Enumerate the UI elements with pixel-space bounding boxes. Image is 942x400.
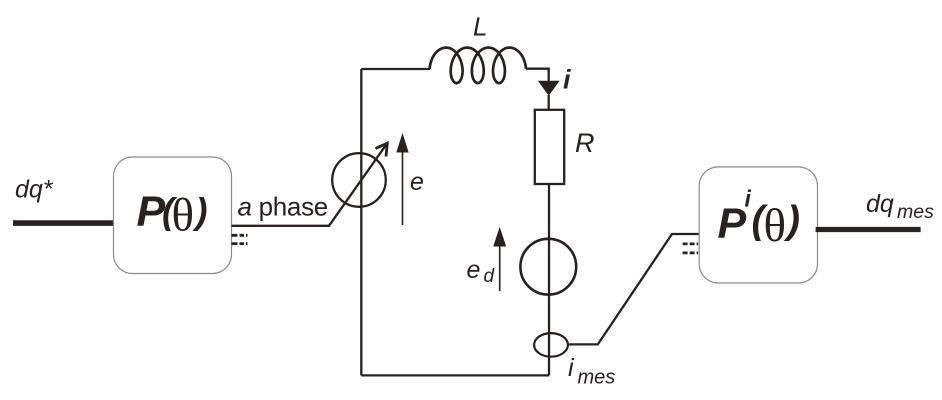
wire resistor to ed source and through to bottom — [548, 184, 550, 375]
wire sensor to P^i block — [568, 234, 699, 344]
wire bottom of loop — [361, 374, 549, 376]
svg-text:e: e — [467, 256, 481, 284]
svg-text:i: i — [568, 354, 575, 382]
wire dq* input (thick) — [13, 220, 114, 226]
svg-text:e: e — [410, 168, 424, 196]
wire dq_mes output (thick) — [816, 227, 921, 232]
svg-text:L: L — [473, 12, 487, 42]
arrow head of variable source — [376, 143, 388, 156]
svg-text:i: i — [563, 65, 571, 95]
variable source V1 (circle with arrow) — [332, 153, 386, 207]
svg-text:i: i — [745, 186, 752, 212]
wire top left to inductor — [361, 68, 430, 70]
svg-text:mes: mes — [897, 201, 934, 223]
source ed circle — [520, 239, 576, 295]
wire inductor to top right corner — [526, 69, 549, 83]
arrow ed (filled) — [499, 243, 501, 291]
svg-text:P: P — [718, 200, 747, 248]
svg-text:R: R — [575, 128, 595, 158]
current arrow i (filled) — [538, 81, 560, 96]
svg-text:dq: dq — [866, 190, 894, 218]
svg-text:a phase: a phase — [238, 192, 328, 222]
svg-text:θ: θ — [764, 200, 787, 252]
transform block P(theta) — [114, 157, 232, 274]
svg-text:mes: mes — [578, 367, 616, 389]
wire a phase — [232, 144, 387, 226]
current sensor i_mes (ellipse) — [534, 333, 568, 357]
transform block P^i(theta) — [699, 167, 817, 283]
svg-text:dq*: dq* — [15, 176, 54, 204]
wire left vertical of loop — [360, 69, 362, 375]
arrow e (emf) — [402, 149, 404, 225]
wire arrow to resistor — [548, 95, 550, 110]
connection dashes right of P(theta) box — [232, 234, 250, 237]
svg-text:d: d — [484, 266, 496, 287]
connection dashes left of P^i box — [683, 242, 700, 245]
svg-text:θ: θ — [172, 190, 195, 242]
inductor L coil — [430, 48, 526, 84]
resistor R — [535, 110, 564, 184]
